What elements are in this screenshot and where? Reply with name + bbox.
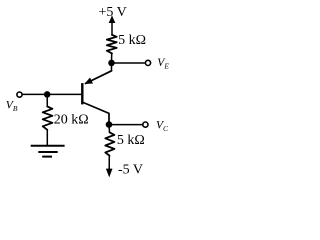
svg-text:20 kΩ: 20 kΩ — [54, 113, 89, 128]
svg-text:5 kΩ: 5 kΩ — [117, 133, 145, 148]
svg-text:5 kΩ: 5 kΩ — [118, 33, 146, 48]
svg-text:-5 V: -5 V — [118, 163, 143, 178]
svg-text:+5 V: +5 V — [99, 5, 127, 20]
